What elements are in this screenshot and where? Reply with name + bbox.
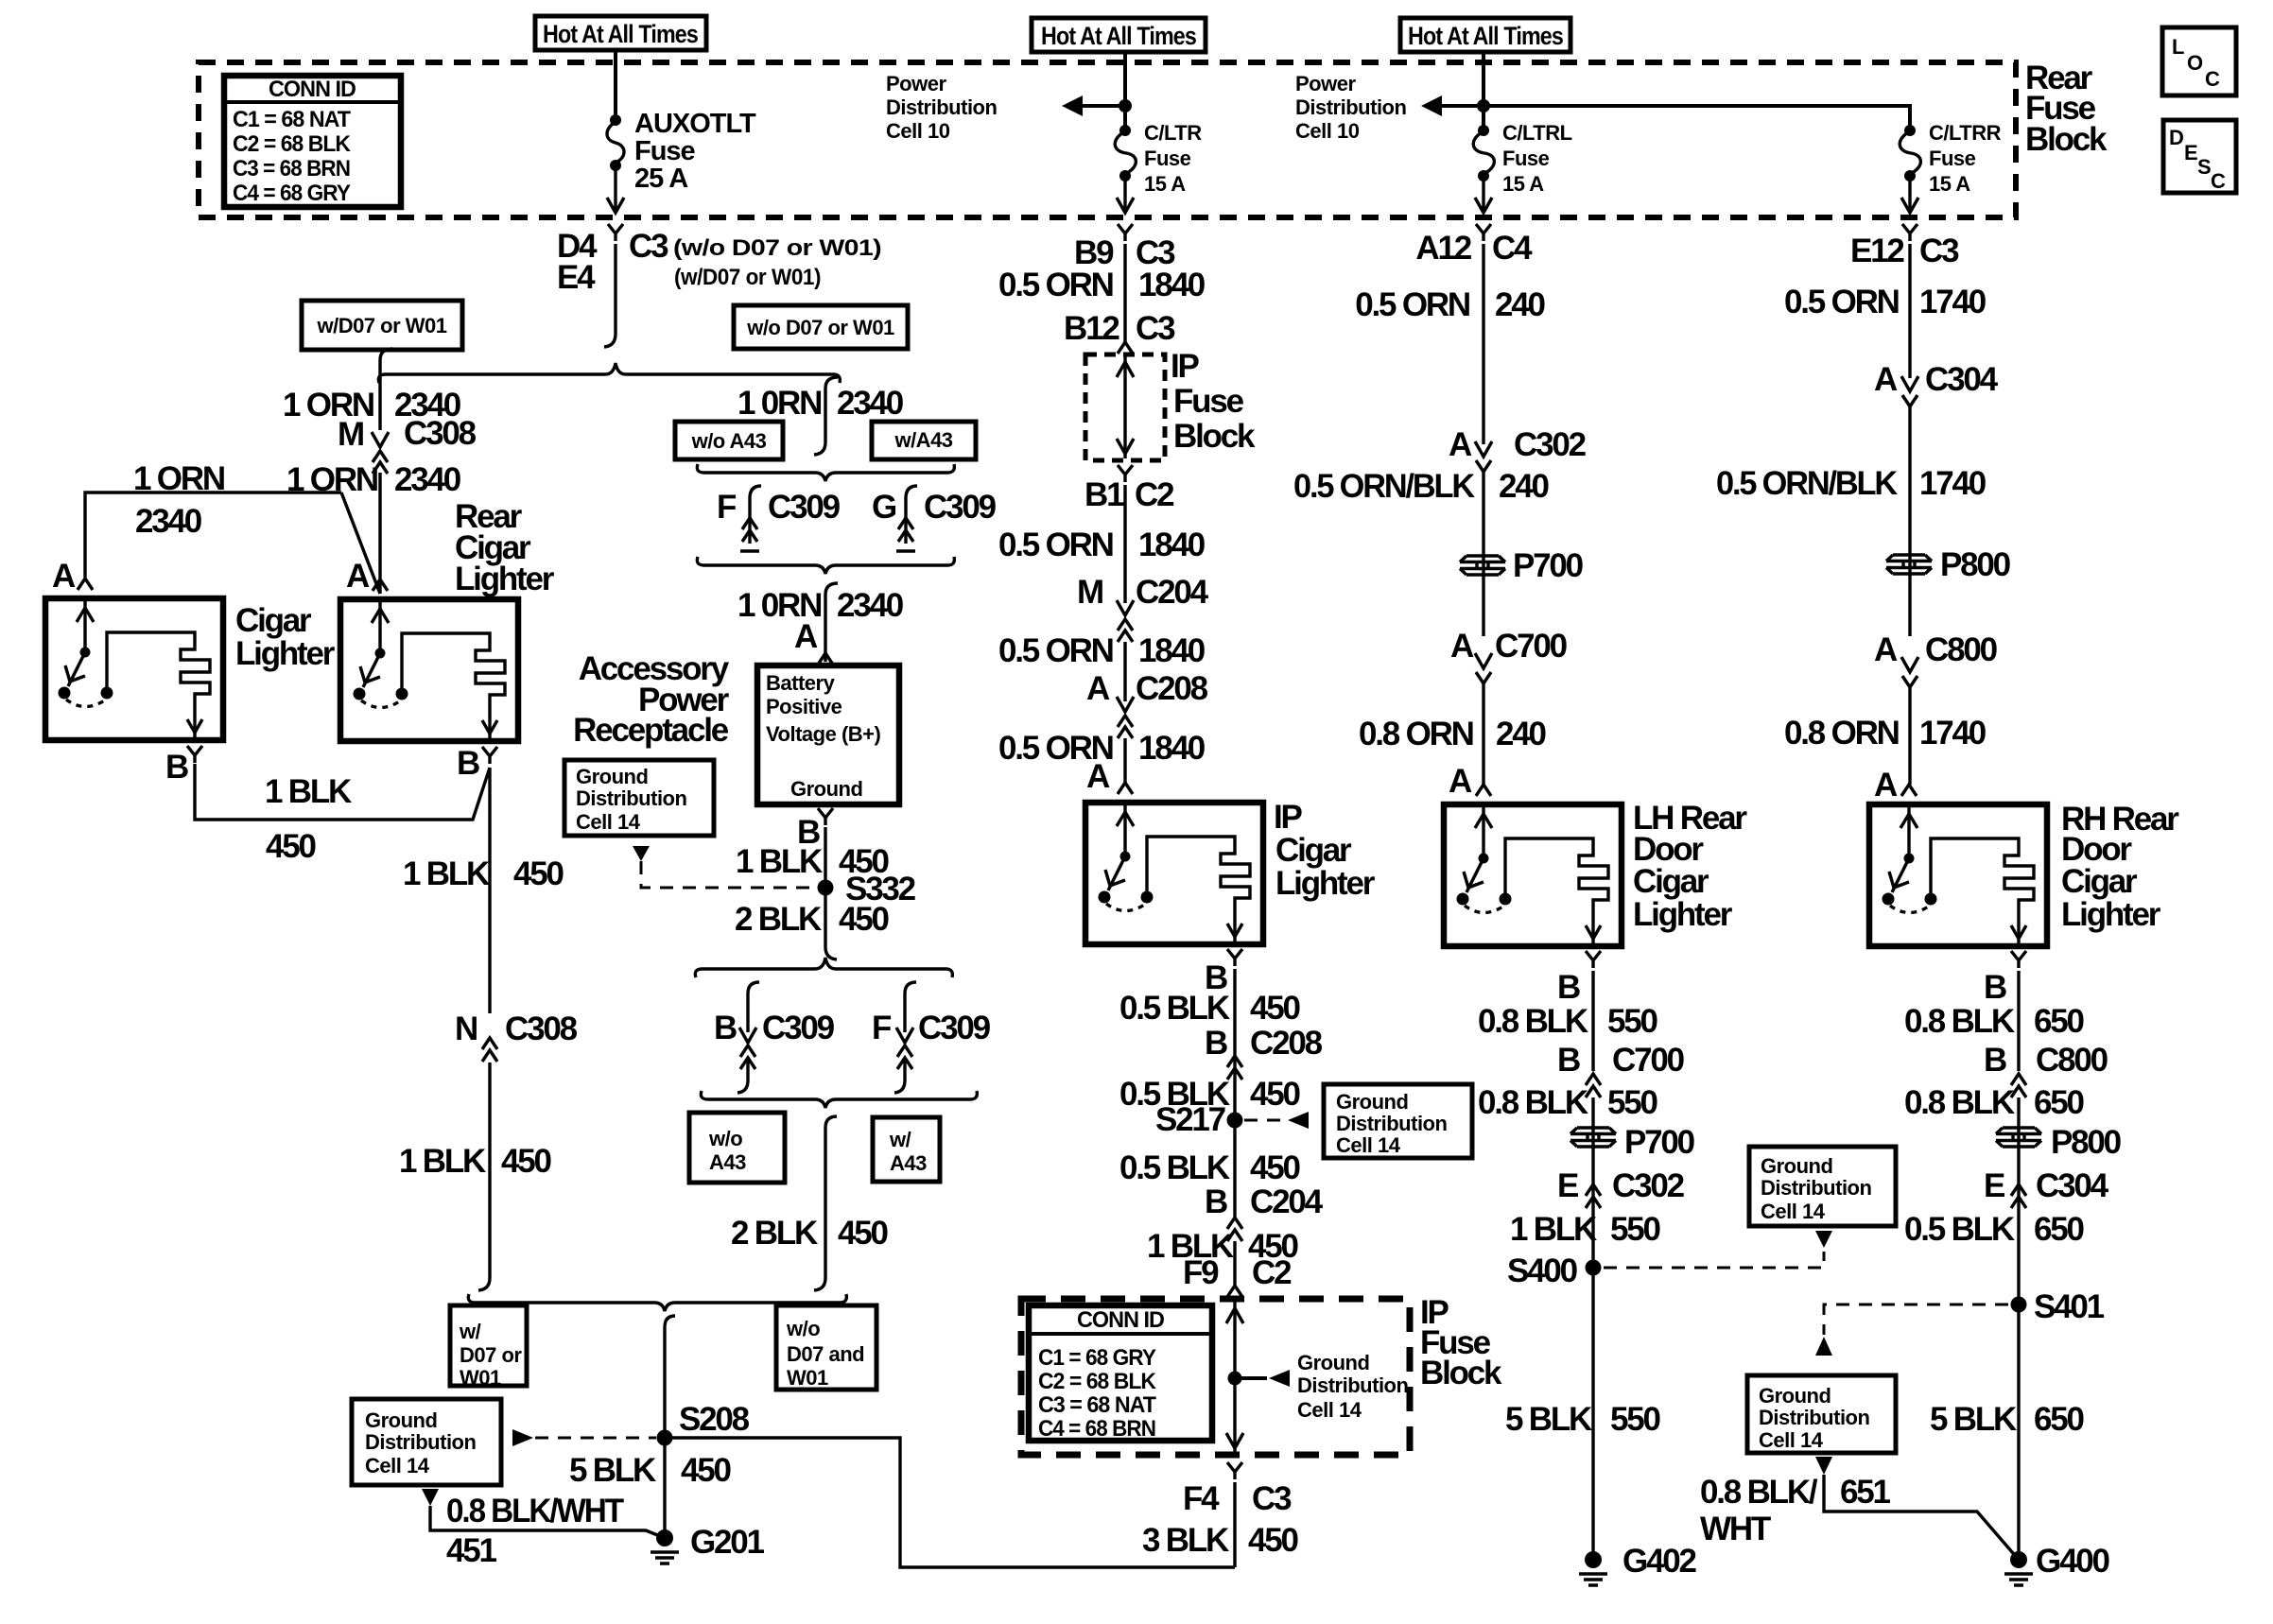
svg-text:w/A43: w/A43 <box>894 428 952 452</box>
svg-text:450: 450 <box>1248 1522 1299 1559</box>
svg-text:Distribution: Distribution <box>1295 95 1406 119</box>
svg-text:0.5 ORN: 0.5 ORN <box>1784 284 1899 320</box>
svg-text:Receptacle: Receptacle <box>573 712 729 749</box>
svg-text:0.5 BLK: 0.5 BLK <box>1119 990 1230 1027</box>
triangle below box5 <box>1815 1457 1832 1475</box>
wire B1 down <box>1123 485 1126 603</box>
svg-text:Distribution: Distribution <box>365 1430 476 1454</box>
svg-text:w/o: w/o <box>708 1127 742 1150</box>
svg-text:Cell 14: Cell 14 <box>1297 1398 1362 1422</box>
svg-text:P700: P700 <box>1513 547 1584 584</box>
power distribution cell10 arrow 1 <box>886 72 1132 143</box>
pass-thru P800 upper <box>1886 555 1932 574</box>
svg-text:Fuse: Fuse <box>1929 147 1976 170</box>
svg-text:O: O <box>2187 51 2203 75</box>
svg-text:0.5 BLK: 0.5 BLK <box>1904 1211 2015 1248</box>
svg-text:C4: C4 <box>1492 230 1533 267</box>
svg-text:A: A <box>1449 763 1472 800</box>
svg-text:G402: G402 <box>1622 1543 1697 1580</box>
svg-text:Cigar: Cigar <box>1275 832 1352 869</box>
svg-text:0.8 BLK: 0.8 BLK <box>1478 1084 1588 1121</box>
svg-text:N: N <box>455 1011 477 1047</box>
svg-text:IP: IP <box>1274 799 1303 836</box>
svg-text:450: 450 <box>1250 1076 1301 1113</box>
svg-text:451: 451 <box>446 1532 497 1569</box>
svg-text:0.5 ORN/BLK: 0.5 ORN/BLK <box>1716 465 1898 502</box>
brace split S332 <box>695 958 952 977</box>
dashed S401 to ground ref <box>1824 1304 2008 1335</box>
svg-text:Distribution: Distribution <box>1759 1406 1869 1429</box>
svg-text:Distribution: Distribution <box>576 786 686 810</box>
svg-text:651: 651 <box>1840 1474 1891 1511</box>
svg-text:1840: 1840 <box>1138 267 1206 303</box>
svg-text:C3: C3 <box>1136 310 1175 347</box>
connector below block col D <box>1902 224 1917 241</box>
svg-text:C302: C302 <box>1612 1167 1685 1204</box>
svg-text:Cell 14: Cell 14 <box>1336 1133 1401 1157</box>
wire: HAT3 down <box>1482 52 1485 130</box>
wire: fuse to block edge with arrow <box>614 165 616 213</box>
svg-text:Hot At All Times: Hot At All Times <box>1041 22 1196 50</box>
svg-text:550: 550 <box>1607 1003 1658 1040</box>
svg-text:CONN ID: CONN ID <box>269 77 356 102</box>
svg-text:650: 650 <box>2034 1084 2085 1121</box>
wire A12 down <box>1482 244 1484 444</box>
svg-text:1 ORN: 1 ORN <box>133 460 224 497</box>
svg-text:1740: 1740 <box>1919 465 1987 502</box>
svg-text:Cell 14: Cell 14 <box>365 1454 430 1477</box>
svg-text:F9: F9 <box>1183 1254 1219 1291</box>
connector F4 C3 <box>1227 1462 1242 1479</box>
svg-text:C302: C302 <box>1514 426 1587 463</box>
svg-text:D07 or: D07 or <box>460 1343 522 1367</box>
wire: C308 to rear lighter pin A <box>378 473 381 594</box>
svg-text:Distribution: Distribution <box>886 95 997 119</box>
svg-text:2340: 2340 <box>837 587 904 624</box>
svg-text:C3 = 68 BRN: C3 = 68 BRN <box>233 156 350 181</box>
svg-text:G: G <box>872 489 896 526</box>
svg-text:550: 550 <box>1610 1211 1661 1248</box>
svg-text:5 BLK: 5 BLK <box>1505 1401 1592 1438</box>
pin B receptacle <box>818 808 833 825</box>
pin B rear cigar lighter <box>482 747 497 764</box>
IP fuse block dashed box 2 <box>1021 1299 1410 1455</box>
svg-text:C2 = 68 BLK: C2 = 68 BLK <box>1038 1369 1157 1394</box>
svg-text:C/LTRR: C/LTRR <box>1929 121 2002 145</box>
svg-text:B: B <box>1984 1042 2006 1079</box>
junction to ground ref inside block <box>1228 1372 1242 1386</box>
svg-text:F: F <box>872 1010 892 1046</box>
svg-text:1 BLK: 1 BLK <box>399 1143 486 1180</box>
svg-text:0.5 ORN: 0.5 ORN <box>1355 286 1469 323</box>
option box w/o D07 and W01 <box>776 1305 876 1390</box>
wire: HAT1 down to fuse <box>614 50 617 120</box>
svg-text:E: E <box>1557 1167 1578 1204</box>
svg-text:C800: C800 <box>2036 1042 2108 1079</box>
svg-text:C2: C2 <box>1135 476 1174 513</box>
svg-text:WHT: WHT <box>1700 1511 1771 1547</box>
svg-text:450: 450 <box>838 1215 889 1252</box>
svg-text:B: B <box>165 749 188 786</box>
ground distribution cell14 box 5 <box>1747 1375 1896 1453</box>
svg-text:Ground: Ground <box>1336 1090 1408 1114</box>
svg-text:C309: C309 <box>768 489 841 526</box>
svg-text:B: B <box>1984 969 2006 1006</box>
wire 0.8 BLK/WHT 651 to G400 <box>1824 1475 2019 1560</box>
CONN ID table (rear fuse block) <box>224 76 401 207</box>
wire: N C308 down <box>478 1063 490 1290</box>
svg-text:A: A <box>1086 670 1110 707</box>
pass-thru P700 upper <box>1460 556 1505 575</box>
svg-text:A12: A12 <box>1415 230 1471 267</box>
brace split A43 <box>697 464 954 481</box>
svg-text:L: L <box>2172 35 2184 59</box>
connector F C309 stub 2 <box>872 982 991 1093</box>
svg-text:W01: W01 <box>787 1366 828 1390</box>
brace merge main grounds <box>468 1294 846 1311</box>
svg-text:C3: C3 <box>1919 233 1959 269</box>
svg-text:S: S <box>2197 155 2211 179</box>
svg-text:Block: Block <box>2025 121 2108 158</box>
svg-text:0.5 ORN: 0.5 ORN <box>998 527 1113 563</box>
svg-text:15 A: 15 A <box>1144 172 1186 196</box>
ground distribution cell14 box 4 <box>1749 1147 1896 1226</box>
wire: merged to receptacle <box>825 583 838 662</box>
wire B down <box>1591 971 1594 1071</box>
LH rear door cigar lighter component <box>1444 785 1622 946</box>
Hot At All Times box 2 <box>1032 18 1206 52</box>
svg-text:5 BLK: 5 BLK <box>569 1452 656 1489</box>
svg-text:C/LTR: C/LTR <box>1144 121 1202 145</box>
connector B1 C2 <box>1118 465 1133 482</box>
option box w/ D07 or W01 <box>450 1305 527 1390</box>
svg-text:C700: C700 <box>1612 1042 1685 1079</box>
svg-text:0.5 ORN/BLK: 0.5 ORN/BLK <box>1293 468 1475 505</box>
pin B cigar lighter <box>187 746 202 763</box>
svg-text:C2: C2 <box>1252 1254 1292 1291</box>
svg-text:1 BLK: 1 BLK <box>1510 1211 1597 1248</box>
triangle down to S332 dashed <box>633 846 650 861</box>
svg-text:w/o: w/o <box>786 1317 820 1340</box>
svg-text:B1: B1 <box>1084 476 1124 513</box>
svg-text:Ground: Ground <box>1761 1154 1832 1178</box>
RH rear door cigar lighter component <box>1869 785 2047 946</box>
svg-text:650: 650 <box>2034 1211 2085 1248</box>
svg-text:w/o A43: w/o A43 <box>691 429 767 453</box>
svg-text:A: A <box>52 558 76 595</box>
wire: B to S332 <box>824 827 826 947</box>
svg-text:0.8 BLK: 0.8 BLK <box>1904 1003 2015 1040</box>
svg-text:0.8 BLK: 0.8 BLK <box>1904 1084 2015 1121</box>
fuse C/LTR 15A <box>1115 121 1202 196</box>
option box w/o D07 or W01 <box>734 305 908 349</box>
pass-thru P800 lower <box>1996 1128 2041 1147</box>
svg-text:15 A: 15 A <box>1929 172 1970 196</box>
svg-text:2 BLK: 2 BLK <box>735 901 822 938</box>
wire B down to S217 <box>1233 969 1236 1218</box>
brace merge A43 <box>697 557 954 574</box>
svg-text:D: D <box>2169 126 2183 149</box>
option box w/A43 <box>872 422 976 459</box>
svg-text:Lighter: Lighter <box>455 561 555 597</box>
svg-text:B: B <box>1205 1025 1227 1062</box>
fuse C/LTRR 15A <box>1900 121 2001 196</box>
svg-text:1840: 1840 <box>1138 632 1206 669</box>
svg-text:w/: w/ <box>459 1320 481 1343</box>
svg-text:C308: C308 <box>505 1011 578 1047</box>
svg-text:Cigar: Cigar <box>2061 863 2138 900</box>
svg-text:450: 450 <box>1250 1149 1301 1186</box>
svg-text:Ground: Ground <box>576 765 648 788</box>
splice S401 <box>2011 1297 2027 1313</box>
ground G400 <box>2004 1551 2033 1585</box>
svg-text:240: 240 <box>1496 716 1547 752</box>
Hot At All Times box 1 <box>535 16 706 50</box>
svg-text:P800: P800 <box>2051 1124 2122 1161</box>
svg-text:W01: W01 <box>460 1366 501 1390</box>
svg-text:2340: 2340 <box>394 461 461 498</box>
wire: brace to S208 to G201 <box>665 1316 675 1538</box>
svg-text:Cell 14: Cell 14 <box>576 810 641 834</box>
svg-text:C: C <box>2211 169 2226 193</box>
svg-text:Block: Block <box>1173 418 1256 455</box>
svg-text:C308: C308 <box>404 415 477 452</box>
svg-text:G201: G201 <box>690 1524 765 1561</box>
wire B down <box>2017 971 2020 1071</box>
wire thru IP fuse block 2 <box>1233 1301 1236 1453</box>
svg-text:Lighter: Lighter <box>235 635 336 672</box>
option box w/o A43 <box>675 422 783 459</box>
svg-text:2340: 2340 <box>135 503 202 540</box>
svg-text:450: 450 <box>266 828 317 865</box>
svg-text:C208: C208 <box>1136 670 1208 707</box>
svg-text:Battery: Battery <box>766 671 836 695</box>
svg-text:1 BLK: 1 BLK <box>403 855 490 892</box>
fuse AUXOTLT 25A <box>607 109 756 194</box>
svg-text:450: 450 <box>501 1143 552 1180</box>
svg-text:1740: 1740 <box>1919 284 1987 320</box>
ground G402 <box>1579 1551 1607 1585</box>
wire E12 down <box>1908 244 1911 378</box>
triangle above box5 <box>1815 1337 1832 1356</box>
LOC box <box>2162 27 2236 95</box>
connector B C309 stub <box>714 982 835 1093</box>
svg-text:S401: S401 <box>2034 1288 2105 1325</box>
connector below block col C <box>1476 224 1491 241</box>
svg-text:25 A: 25 A <box>634 164 688 194</box>
svg-text:Lighter: Lighter <box>1275 865 1376 902</box>
svg-text:0.5 BLK: 0.5 BLK <box>1119 1149 1230 1186</box>
svg-text:B12: B12 <box>1064 310 1119 347</box>
pass-thru P700 lower <box>1570 1128 1616 1147</box>
svg-text:w/o D07 or W01: w/o D07 or W01 <box>746 316 894 339</box>
ground distribution cell14 box 1 <box>564 760 714 836</box>
svg-text:C309: C309 <box>918 1010 991 1046</box>
svg-text:Cell 10: Cell 10 <box>886 119 950 143</box>
option box w/A43 lower <box>873 1117 940 1182</box>
svg-text:0.5 ORN: 0.5 ORN <box>998 632 1113 669</box>
svg-text:1740: 1740 <box>1919 715 1987 752</box>
wire B9 to B12 <box>1123 244 1126 342</box>
svg-text:450: 450 <box>681 1452 732 1489</box>
svg-text:C309: C309 <box>924 489 997 526</box>
svg-text:A: A <box>794 618 818 655</box>
accessory power receptacle box <box>757 665 899 804</box>
svg-text:C: C <box>2205 67 2220 91</box>
pin B RH lighter <box>2011 951 2026 968</box>
svg-text:A43: A43 <box>890 1151 927 1175</box>
triangle below box4 <box>1815 1231 1832 1248</box>
svg-text:Fuse: Fuse <box>634 136 696 166</box>
svg-text:D07 and: D07 and <box>787 1342 864 1366</box>
connector below block col B <box>1118 224 1133 241</box>
svg-text:C204: C204 <box>1136 574 1209 611</box>
svg-text:A: A <box>1449 426 1472 463</box>
svg-text:F4: F4 <box>1183 1480 1220 1517</box>
svg-text:1840: 1840 <box>1138 527 1206 563</box>
svg-text:F: F <box>717 489 737 526</box>
svg-text:Power: Power <box>886 72 946 95</box>
svg-text:Fuse: Fuse <box>1502 147 1550 170</box>
svg-text:P700: P700 <box>1624 1124 1695 1161</box>
svg-text:Hot At All Times: Hot At All Times <box>543 20 698 48</box>
svg-text:A: A <box>1086 758 1110 795</box>
svg-text:C3 = 68 NAT: C3 = 68 NAT <box>1038 1392 1156 1418</box>
svg-text:A: A <box>1874 361 1898 398</box>
IP fuse block dashed box 1 <box>1085 354 1165 460</box>
svg-text:550: 550 <box>1607 1084 1658 1121</box>
svg-text:S400: S400 <box>1507 1253 1578 1289</box>
svg-text:CONN ID: CONN ID <box>1077 1307 1165 1333</box>
brace merge C309 <box>701 1091 977 1108</box>
svg-text:C700: C700 <box>1495 628 1568 665</box>
svg-text:C2 = 68 BLK: C2 = 68 BLK <box>233 131 352 157</box>
svg-text:650: 650 <box>2034 1003 2085 1040</box>
connector below block col A <box>608 224 623 241</box>
splice S217 dashed to ground ref <box>1227 1113 1243 1129</box>
svg-text:AUXOTLT: AUXOTLT <box>634 109 756 139</box>
svg-text:240: 240 <box>1499 468 1550 505</box>
svg-text:A: A <box>346 558 370 595</box>
svg-text:1 BLK: 1 BLK <box>265 773 352 810</box>
svg-text:0.8 BLK/WHT: 0.8 BLK/WHT <box>446 1493 624 1529</box>
wire thru IP fuse block <box>1123 356 1126 458</box>
svg-text:Cell 14: Cell 14 <box>1761 1200 1826 1223</box>
wire: merge down 2 BLK <box>814 1116 837 1290</box>
DESC box <box>2163 120 2236 193</box>
dashed S400 to ground ref <box>1604 1252 1824 1268</box>
svg-text:B: B <box>457 745 479 782</box>
svg-text:Distribution: Distribution <box>1761 1176 1871 1200</box>
svg-text:A: A <box>1874 631 1898 668</box>
power distribution cell10 arrow 2 <box>1295 72 1490 143</box>
svg-text:0.8 BLK: 0.8 BLK <box>1478 1003 1588 1040</box>
wire 3 BLK 450 <box>1233 1482 1236 1567</box>
svg-text:P800: P800 <box>1940 546 2011 583</box>
wire: 451 to G201 <box>430 1506 665 1538</box>
connector F C309 stub <box>717 486 841 551</box>
svg-text:Block: Block <box>1420 1355 1502 1391</box>
svg-text:E: E <box>2184 141 2197 164</box>
svg-text:450: 450 <box>1250 990 1301 1027</box>
svg-text:5 BLK: 5 BLK <box>1930 1401 2017 1438</box>
svg-text:Ground: Ground <box>1297 1351 1369 1374</box>
svg-text:B: B <box>1557 1042 1580 1079</box>
svg-text:C309: C309 <box>762 1010 835 1046</box>
svg-text:C800: C800 <box>1925 631 1998 668</box>
svg-text:Ground: Ground <box>790 777 862 801</box>
svg-text:w/: w/ <box>889 1128 911 1151</box>
CONN ID table (IP fuse block) <box>1029 1305 1212 1442</box>
pin B LH lighter <box>1586 951 1601 968</box>
svg-text:M: M <box>1077 574 1102 611</box>
svg-text:1 BLK: 1 BLK <box>736 843 823 880</box>
svg-text:E12: E12 <box>1850 233 1904 269</box>
svg-text:(w/o D07 or W01): (w/o D07 or W01) <box>673 235 881 261</box>
svg-text:0.5 ORN: 0.5 ORN <box>998 267 1113 303</box>
wire: feed to C/LTRR <box>1484 106 1910 130</box>
svg-text:C4 = 68 GRY: C4 = 68 GRY <box>233 181 351 206</box>
svg-text:Lighter: Lighter <box>1633 896 1733 933</box>
svg-text:2340: 2340 <box>837 385 904 422</box>
svg-text:C3: C3 <box>1252 1480 1292 1517</box>
svg-text:B: B <box>1557 969 1580 1006</box>
svg-text:Voltage (B+): Voltage (B+) <box>766 722 881 746</box>
svg-text:G400: G400 <box>2036 1543 2110 1580</box>
svg-text:Ground: Ground <box>365 1408 437 1432</box>
svg-text:1840: 1840 <box>1138 730 1206 767</box>
svg-text:w/D07 or W01: w/D07 or W01 <box>316 314 446 337</box>
svg-text:IP: IP <box>1171 348 1200 385</box>
wire: S208 right to IP ground run <box>665 1438 1235 1567</box>
svg-text:Hot At All Times: Hot At All Times <box>1408 22 1563 50</box>
svg-text:450: 450 <box>513 855 564 892</box>
svg-text:1 0RN: 1 0RN <box>737 385 821 422</box>
wire: col A to split <box>604 244 616 347</box>
triangle down 0.8 BLK/WHT <box>422 1489 439 1506</box>
svg-text:Distribution: Distribution <box>1336 1112 1447 1135</box>
svg-text:C304: C304 <box>1925 361 1999 398</box>
svg-text:C3: C3 <box>629 228 668 265</box>
IP cigar lighter component <box>1085 783 1263 944</box>
option box w/D07 or W01 <box>302 301 462 350</box>
svg-text:Cell 10: Cell 10 <box>1295 119 1360 143</box>
ground distribution cell14 box 2 <box>352 1399 501 1485</box>
wire curl above brace <box>825 947 837 959</box>
fuse C/LTRL 15A <box>1473 121 1571 196</box>
svg-text:Cigar: Cigar <box>235 602 312 639</box>
svg-text:C4 = 68 BRN: C4 = 68 BRN <box>1038 1416 1155 1442</box>
svg-text:C208: C208 <box>1250 1025 1323 1062</box>
svg-text:S208: S208 <box>679 1401 750 1438</box>
rear fuse block dashed outline <box>199 62 2016 217</box>
svg-text:A43: A43 <box>709 1150 746 1174</box>
ground G201 <box>651 1529 679 1564</box>
triangle to S208 <box>512 1429 533 1446</box>
cigar lighter component <box>45 579 223 740</box>
svg-text:E: E <box>1984 1167 2004 1204</box>
svg-text:Ground: Ground <box>1759 1384 1831 1408</box>
svg-text:Fuse: Fuse <box>1144 147 1191 170</box>
connector G C309 stub <box>872 486 997 551</box>
rear fuse block label <box>2025 60 2108 158</box>
Hot At All Times box 3 <box>1400 18 1570 52</box>
svg-text:0.8 ORN: 0.8 ORN <box>1784 715 1899 752</box>
svg-text:15 A: 15 A <box>1502 172 1544 196</box>
svg-text:3 BLK: 3 BLK <box>1142 1522 1229 1559</box>
pin B IP cigar lighter <box>1227 949 1242 966</box>
splice S332 <box>818 880 834 896</box>
